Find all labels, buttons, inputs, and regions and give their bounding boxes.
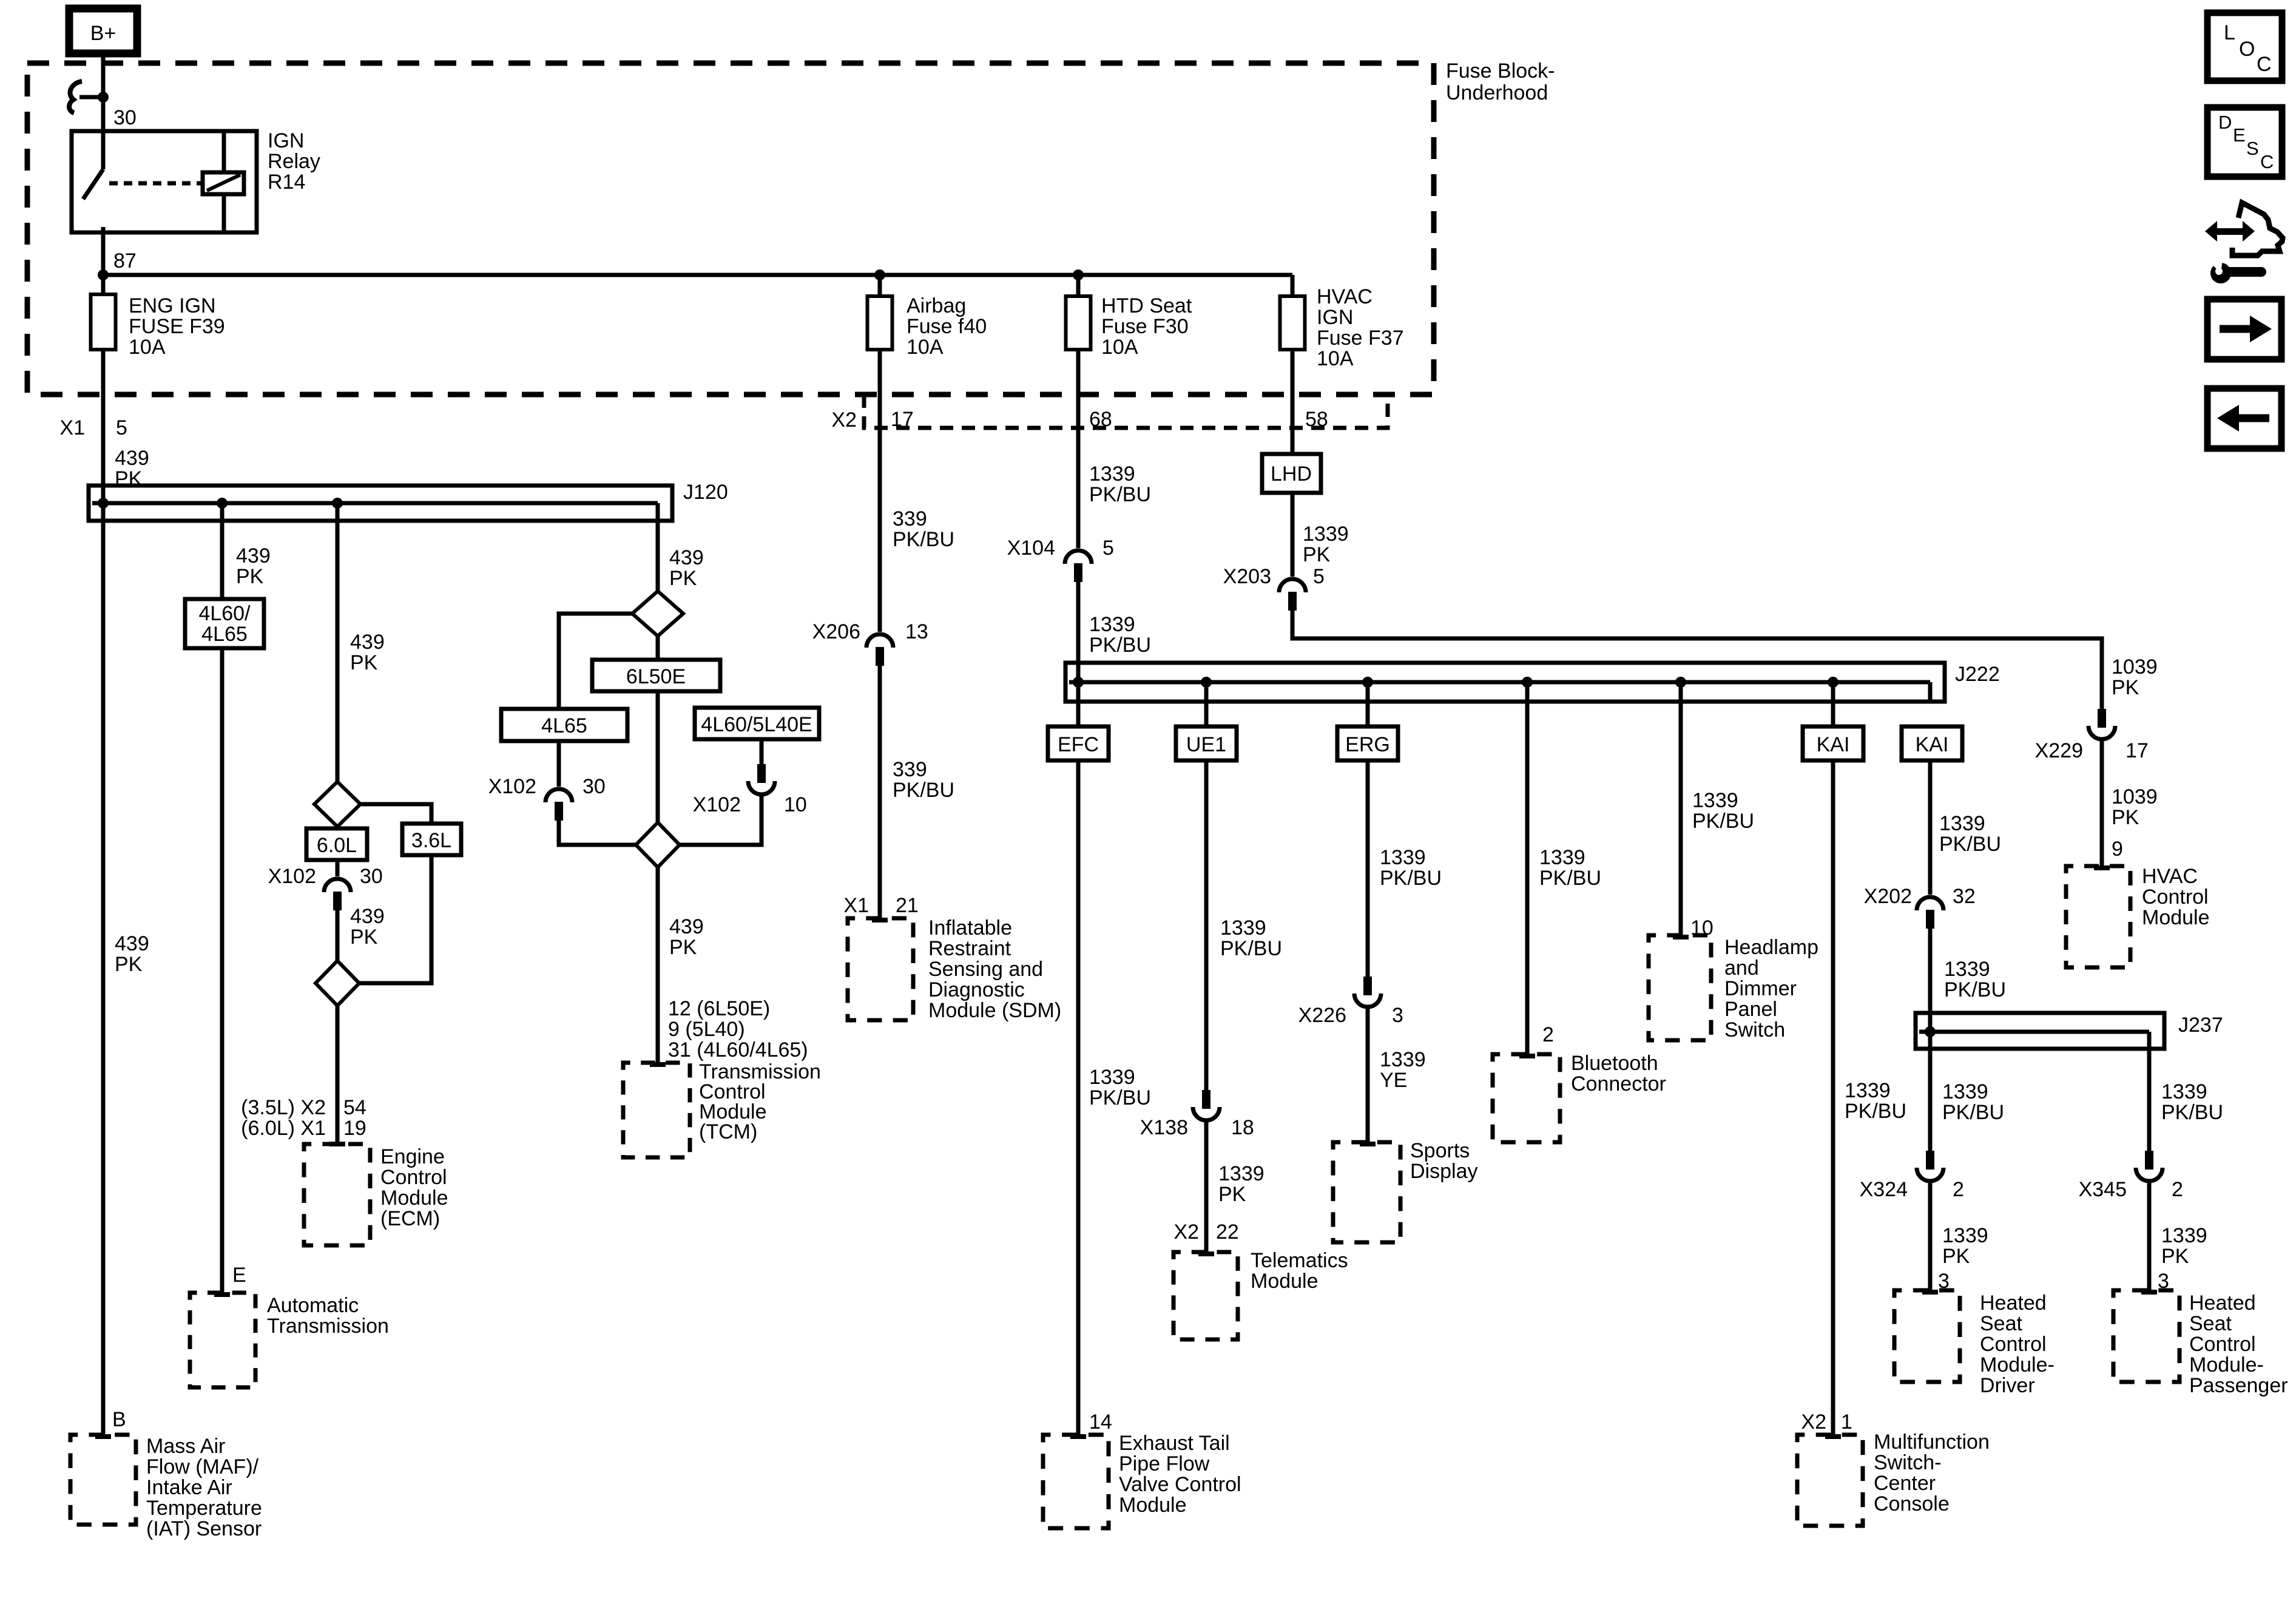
svg-text:439: 439 (669, 915, 704, 938)
wire X206 to SDM (878, 665, 882, 918)
svg-text:PK/BU: PK/BU (1380, 867, 1442, 890)
IGN relay R14 box (72, 131, 257, 232)
svg-text:4L65: 4L65 (201, 623, 248, 646)
junction dot at relay feed (98, 92, 109, 103)
svg-text:PK/BU: PK/BU (1939, 833, 2001, 856)
svg-text:1339: 1339 (1303, 523, 1349, 546)
svg-text:30: 30 (360, 865, 383, 888)
svg-text:LHD: LHD (1271, 462, 1312, 486)
KAI fuse tap box (center console) (1831, 682, 1835, 1435)
svg-text:PK: PK (669, 936, 697, 959)
svg-text:2: 2 (1542, 1023, 1554, 1046)
svg-text:Module: Module (380, 1187, 448, 1210)
svg-text:Heated: Heated (2189, 1292, 2256, 1315)
fuse F30 HTD Seat 10A (1076, 275, 1081, 296)
svg-text:X2: X2 (831, 408, 857, 432)
svg-text:Control: Control (380, 1166, 447, 1189)
wire fuse F39 to J120 (101, 350, 106, 486)
feed wire to airbag / htd seat / hvac fuses (103, 273, 1292, 277)
svg-text:C: C (2260, 151, 2274, 172)
wire 3.6L branch to merge diamond (359, 855, 431, 983)
connector X2 dashed outline (864, 394, 1388, 428)
splice pack J237 (1916, 1013, 2164, 1049)
svg-text:439: 439 (350, 905, 385, 928)
svg-text:X345: X345 (2079, 1178, 2127, 1201)
svg-text:Display: Display (1410, 1160, 1477, 1183)
svg-text:Relay: Relay (268, 150, 320, 173)
svg-text:B: B (112, 1408, 126, 1431)
svg-text:Seat: Seat (1980, 1312, 2022, 1335)
connector X226 pin 3 (1363, 977, 1372, 995)
svg-text:Diagnostic: Diagnostic (928, 978, 1025, 1001)
connector X104 pin 5 (1065, 550, 1092, 564)
svg-text:C: C (2257, 53, 2272, 76)
svg-text:31 (4L60/4L65): 31 (4L60/4L65) (668, 1038, 808, 1061)
LHD option box (1262, 454, 1321, 493)
svg-text:YE: YE (1380, 1069, 1407, 1092)
svg-text:PK: PK (2161, 1245, 2189, 1268)
svg-text:J222: J222 (1955, 663, 2000, 686)
svg-text:10A: 10A (907, 336, 944, 359)
svg-text:Engine: Engine (380, 1145, 445, 1168)
UE1 fuse tap box (1204, 682, 1209, 1090)
svg-text:PK/BU: PK/BU (1089, 1086, 1151, 1109)
splice pack J222 (1065, 663, 1945, 702)
wire merge diamond to TCM (656, 867, 660, 1063)
svg-text:IGN: IGN (268, 129, 304, 152)
battery feed B+ terminal (69, 8, 137, 53)
svg-text:X102: X102 (488, 775, 536, 798)
Engine Control Module (ECM) box (304, 1144, 370, 1245)
svg-text:IGN: IGN (1317, 306, 1353, 329)
connector X229 pin 17 (2098, 709, 2106, 728)
svg-text:Multifunction: Multifunction (1874, 1430, 1990, 1454)
svg-text:Switch-: Switch- (1874, 1451, 1941, 1474)
svg-text:X104: X104 (1007, 537, 1055, 560)
svg-text:Heated: Heated (1980, 1292, 2047, 1315)
svg-text:HTD Seat: HTD Seat (1101, 294, 1192, 317)
fuse block feed hook symbol (69, 81, 82, 113)
wire to 4L65 branch (559, 614, 632, 709)
relay coil branch (222, 131, 226, 173)
svg-text:87: 87 (113, 249, 137, 273)
connector X324 pin 2 (1926, 1151, 1934, 1170)
svg-text:X138: X138 (1140, 1116, 1188, 1139)
svg-text:Headlamp: Headlamp (1724, 936, 1818, 959)
svg-text:PK: PK (2112, 806, 2139, 829)
svg-text:Intake Air: Intake Air (146, 1476, 232, 1499)
svg-text:PK/BU: PK/BU (1942, 1101, 2004, 1124)
KAI fuse tap box (heated seats) (1902, 726, 1962, 760)
Mass Air Flow (MAF)/IAT sensor box (70, 1435, 136, 1525)
svg-text:Inflatable: Inflatable (928, 916, 1012, 940)
svg-text:30: 30 (582, 775, 606, 798)
svg-text:3: 3 (1392, 1004, 1403, 1027)
fuse f40 Airbag 10A (878, 275, 882, 296)
svg-text:X102: X102 (268, 865, 316, 888)
svg-text:R14: R14 (268, 171, 305, 194)
svg-text:4L60/5L40E: 4L60/5L40E (701, 713, 812, 736)
svg-text:Control: Control (2189, 1333, 2256, 1356)
svg-text:13: 13 (905, 620, 928, 643)
svg-text:Transmission: Transmission (267, 1315, 389, 1338)
wire X138 to telematics module (1204, 1122, 1209, 1252)
svg-text:Telematics: Telematics (1251, 1249, 1348, 1272)
svg-text:(3.5L) X2: (3.5L) X2 (241, 1096, 326, 1119)
svg-text:19: 19 (343, 1117, 366, 1140)
svg-text:1339: 1339 (1942, 1224, 1988, 1247)
svg-text:Dimmer: Dimmer (1724, 977, 1797, 1000)
svg-text:X2: X2 (1173, 1221, 1199, 1244)
svg-text:Console: Console (1874, 1492, 1950, 1515)
svg-text:PK/BU: PK/BU (1845, 1100, 1906, 1123)
svg-text:O: O (2239, 38, 2255, 61)
svg-text:Center: Center (1874, 1472, 1936, 1495)
svg-text:PK/BU: PK/BU (893, 779, 954, 802)
svg-text:1339: 1339 (1539, 846, 1585, 869)
svg-text:X1: X1 (843, 894, 869, 917)
svg-text:Seat: Seat (2189, 1312, 2232, 1335)
EFC fuse tap box (1048, 726, 1109, 760)
svg-text:PK: PK (1303, 543, 1331, 566)
svg-text:X1: X1 (59, 416, 85, 439)
next page arrow icon (2207, 299, 2281, 359)
wire J120 to MAF/IAT sensor (101, 486, 106, 1435)
svg-text:Control: Control (1980, 1333, 2047, 1356)
svg-text:X206: X206 (812, 620, 860, 643)
svg-text:UE1: UE1 (1186, 733, 1226, 756)
engine branch merge diamond (336, 910, 340, 961)
svg-text:Fuse F30: Fuse F30 (1101, 315, 1189, 338)
Sports Display box (1333, 1142, 1400, 1242)
transmission application split diamond (632, 591, 683, 636)
wire J120 to TCM (656, 521, 660, 591)
svg-text:439: 439 (115, 447, 149, 470)
svg-text:PK: PK (115, 953, 143, 976)
svg-text:Module: Module (2142, 906, 2210, 929)
svg-text:Bluetooth: Bluetooth (1571, 1052, 1658, 1075)
Headlamp and Dimmer Panel Switch box (1649, 935, 1711, 1040)
svg-text:Temperature: Temperature (146, 1497, 262, 1520)
wire X102 pin 10 to merge diamond (680, 796, 761, 845)
svg-text:4L60/: 4L60/ (198, 602, 251, 625)
svg-text:KAI: KAI (1916, 733, 1949, 756)
Transmission Control Module (TCM) box (623, 1063, 690, 1157)
Heated Seat Control Module - Passenger box (2113, 1290, 2180, 1382)
svg-text:PK: PK (350, 926, 378, 949)
svg-text:1: 1 (1841, 1410, 1852, 1434)
svg-text:5: 5 (1313, 565, 1325, 588)
svg-text:1339: 1339 (1380, 1048, 1426, 1071)
svg-text:2: 2 (2172, 1178, 2183, 1201)
svg-text:Connector: Connector (1571, 1072, 1666, 1095)
svg-text:58: 58 (1305, 408, 1328, 431)
svg-text:1339: 1339 (2161, 1224, 2207, 1247)
svg-text:1039: 1039 (2112, 785, 2158, 808)
svg-text:Fuse F37: Fuse F37 (1317, 327, 1404, 350)
svg-text:X229: X229 (2035, 739, 2083, 762)
svg-text:4L65: 4L65 (541, 714, 587, 737)
wire J120 to ECM (336, 503, 340, 782)
svg-text:Flow (MAF)/: Flow (MAF)/ (146, 1455, 259, 1478)
svg-text:Sensing and: Sensing and (928, 958, 1043, 981)
wire 4L65 to connector X102 (557, 741, 561, 787)
svg-text:1339: 1339 (1692, 789, 1738, 812)
svg-text:10A: 10A (1317, 347, 1354, 370)
connector X102 pin 30 (6.0L) (324, 879, 351, 892)
svg-text:439: 439 (350, 631, 385, 654)
svg-text:J120: J120 (683, 481, 728, 504)
wire X104 to J222 and EFC (1076, 581, 1081, 1435)
svg-text:PK: PK (350, 651, 378, 674)
svg-text:1039: 1039 (2112, 655, 2158, 679)
svg-text:PK/BU: PK/BU (1692, 810, 1754, 833)
svg-text:17: 17 (2125, 739, 2149, 762)
svg-text:S: S (2246, 138, 2259, 159)
svg-text:and: and (1724, 956, 1759, 980)
svg-text:6.0L: 6.0L (317, 834, 357, 857)
svg-text:Module-: Module- (2189, 1353, 2264, 1376)
svg-text:J237: J237 (2178, 1014, 2223, 1037)
wire 6.0L box to connector X102 (336, 860, 340, 876)
wire to 3.6L branch (360, 804, 431, 824)
svg-text:Exhaust Tail: Exhaust Tail (1119, 1432, 1230, 1455)
svg-text:1339: 1339 (1218, 1162, 1264, 1185)
svg-text:2: 2 (1953, 1178, 1964, 1201)
connector X203 pin 5 (1279, 579, 1306, 592)
svg-text:339: 339 (893, 758, 927, 781)
svg-text:1339: 1339 (2161, 1080, 2207, 1103)
wire X102 to merge diamond (559, 820, 636, 845)
svg-text:(IAT) Sensor: (IAT) Sensor (146, 1517, 262, 1540)
wire X345 to heated seat module passenger (2147, 1183, 2152, 1290)
svg-text:Pipe Flow: Pipe Flow (1119, 1452, 1210, 1475)
svg-text:Valve Control: Valve Control (1119, 1473, 1241, 1496)
svg-text:ENG IGN: ENG IGN (129, 294, 216, 317)
svg-text:L: L (2224, 21, 2235, 44)
svg-text:X202: X202 (1864, 885, 1912, 908)
wire from B+ into fuse block (101, 53, 106, 132)
svg-text:PK/BU: PK/BU (2161, 1101, 2223, 1124)
wire fuse f40 to SDM (878, 350, 882, 632)
svg-text:B+: B+ (90, 22, 116, 45)
svg-text:FUSE F39: FUSE F39 (129, 315, 225, 338)
svg-text:1339: 1339 (1380, 846, 1426, 869)
svg-text:KAI: KAI (1817, 733, 1850, 756)
relay coil box (203, 172, 244, 194)
svg-text:Module: Module (1251, 1270, 1319, 1293)
svg-text:1339: 1339 (1220, 916, 1266, 940)
wire fuse F37 to LHD option box (1291, 350, 1295, 454)
svg-text:Underhood: Underhood (1446, 81, 1548, 104)
svg-text:22: 22 (1216, 1221, 1239, 1244)
svg-text:1339: 1339 (1845, 1079, 1891, 1102)
wire merge diamond to ECM (336, 1006, 340, 1144)
svg-text:PK: PK (1942, 1245, 1970, 1268)
4L60/4L65 application box (185, 599, 264, 648)
svg-text:1339: 1339 (1942, 1080, 1988, 1103)
wire X229 to HVAC control module (2100, 741, 2104, 866)
svg-text:54: 54 (343, 1096, 366, 1119)
connector X345 pin 2 (2145, 1151, 2153, 1170)
shop/diagnostic icon (arrows, engine outline, wrench) (2205, 203, 2283, 283)
fuse F39 ENG IGN 10A (91, 294, 116, 350)
connector X102 pin 30 (4L65) (545, 789, 572, 802)
svg-text:Control: Control (2142, 885, 2209, 909)
engine application split diamond (314, 782, 360, 827)
HVAC Control Module box (2066, 866, 2130, 967)
svg-text:Fuse Block-: Fuse Block- (1446, 59, 1555, 83)
svg-text:1339: 1339 (1939, 812, 1985, 835)
3.6L application box (402, 824, 461, 855)
svg-text:10: 10 (784, 793, 807, 816)
wire J222 to headlamp dimmer switch (1679, 682, 1683, 935)
svg-text:PK/BU: PK/BU (1089, 483, 1151, 506)
svg-text:X2: X2 (1801, 1410, 1826, 1434)
wire X203 to HVAC control module branch (1292, 610, 2102, 709)
connector X138 pin 18 (1202, 1090, 1210, 1109)
Telematics Module box (1173, 1252, 1238, 1339)
svg-text:PK/BU: PK/BU (893, 528, 954, 551)
Heated Seat Control Module - Driver box (1894, 1290, 1960, 1382)
wire X226 to sports display (1366, 1009, 1370, 1142)
LOC navigation icon (2207, 13, 2282, 81)
Exhaust Tail Pipe Flow Valve Control Module box (1043, 1435, 1109, 1528)
svg-text:PK: PK (669, 567, 697, 590)
svg-text:1339: 1339 (1089, 462, 1135, 486)
svg-text:X102: X102 (693, 793, 741, 816)
transmission branch merge diamond (636, 822, 680, 867)
wire 4L60/5L40E to connector X102 pin 10 (760, 739, 764, 764)
wire KAI to X202 (1928, 760, 1933, 895)
svg-text:Passenger: Passenger (2189, 1374, 2288, 1397)
svg-text:X324: X324 (1860, 1178, 1908, 1201)
svg-text:PK/BU: PK/BU (1944, 978, 2006, 1001)
svg-text:PK/BU: PK/BU (1089, 634, 1151, 657)
connector X206 pin 13 (866, 634, 893, 648)
svg-text:(ECM): (ECM) (380, 1207, 440, 1230)
wire J222 to bluetooth connector (1525, 682, 1530, 1054)
svg-text:Sports: Sports (1410, 1139, 1470, 1162)
svg-text:14: 14 (1089, 1410, 1112, 1434)
4L65 application box (501, 709, 627, 741)
svg-text:HVAC: HVAC (1317, 285, 1373, 308)
svg-text:Automatic: Automatic (267, 1294, 359, 1317)
svg-text:ERG: ERG (1345, 733, 1390, 756)
svg-text:Mass Air: Mass Air (146, 1435, 225, 1458)
svg-text:PK: PK (2112, 676, 2139, 699)
svg-text:5: 5 (116, 416, 127, 439)
svg-text:1339: 1339 (1944, 958, 1990, 981)
ERG fuse tap box (1366, 682, 1370, 977)
svg-text:Module (SDM): Module (SDM) (928, 999, 1061, 1022)
svg-text:PK: PK (236, 565, 264, 588)
svg-text:EFC: EFC (1058, 733, 1099, 756)
Inflatable Restraint Sensing and Diagnostic Module (SDM) box (848, 918, 913, 1020)
svg-text:E: E (2233, 124, 2246, 146)
relay actuation dashed link (109, 181, 203, 186)
svg-text:Module-: Module- (1980, 1353, 2055, 1376)
wire J120 to automatic transmission (220, 503, 225, 599)
svg-text:HVAC: HVAC (2142, 865, 2198, 888)
svg-text:32: 32 (1953, 885, 1976, 908)
6.0L application box (336, 827, 340, 830)
svg-text:439: 439 (236, 544, 271, 567)
svg-text:Switch: Switch (1724, 1018, 1785, 1041)
svg-text:10A: 10A (129, 336, 166, 359)
svg-text:Panel: Panel (1724, 998, 1777, 1021)
relay switch contact pin 30 to 87 (101, 131, 106, 169)
wire J237 to X345 (2147, 1049, 2152, 1151)
svg-text:X203: X203 (1223, 565, 1271, 588)
4L60/5L40E application box (695, 708, 819, 739)
Fuse Block - Underhood dashed enclosure (27, 63, 1434, 394)
Automatic Transmission box (190, 1293, 255, 1387)
svg-text:Airbag: Airbag (907, 294, 966, 317)
svg-text:Fuse f40: Fuse f40 (907, 315, 987, 338)
junction dot pin 87 feed (98, 269, 109, 280)
previous page arrow icon (2207, 388, 2281, 449)
svg-text:10A: 10A (1101, 336, 1138, 359)
svg-text:6L50E: 6L50E (626, 665, 686, 688)
svg-text:12 (6L50E): 12 (6L50E) (668, 997, 770, 1020)
svg-text:68: 68 (1089, 408, 1112, 431)
connector X102 pin 10 (757, 764, 766, 783)
svg-text:D: D (2218, 112, 2232, 133)
wire fuse F30 to J222 (1076, 350, 1081, 548)
svg-text:9 (5L40): 9 (5L40) (668, 1018, 745, 1041)
svg-text:E: E (232, 1264, 246, 1287)
Multifunction Switch - Center Console box (1797, 1435, 1863, 1526)
svg-text:(TCM): (TCM) (699, 1120, 757, 1143)
DESC navigation icon (2207, 107, 2282, 177)
connector X202 pin 32 (1917, 897, 1943, 910)
splice pack J120 (89, 486, 672, 521)
svg-text:Driver: Driver (1980, 1374, 2035, 1397)
fuse F37 HVAC IGN 10A (1291, 275, 1295, 296)
svg-text:1339: 1339 (1089, 613, 1135, 636)
svg-text:3.6L: 3.6L (411, 829, 451, 852)
svg-text:X226: X226 (1298, 1004, 1346, 1027)
svg-text:(6.0L) X1: (6.0L) X1 (241, 1117, 326, 1140)
svg-text:21: 21 (896, 894, 919, 917)
svg-text:30: 30 (113, 106, 137, 129)
svg-text:PK/BU: PK/BU (1220, 937, 1282, 960)
wire X324 to heated seat module driver (1928, 1183, 1933, 1290)
Bluetooth Connector box (1493, 1054, 1560, 1142)
svg-text:1339: 1339 (1089, 1066, 1135, 1089)
svg-text:9: 9 (2112, 838, 2123, 861)
6L50E application box (656, 636, 660, 660)
svg-text:439: 439 (115, 932, 149, 955)
svg-text:339: 339 (893, 507, 927, 530)
svg-text:Module: Module (1119, 1494, 1187, 1517)
svg-text:5: 5 (1102, 537, 1114, 560)
svg-text:439: 439 (669, 546, 704, 569)
wire LHD to X203 (1291, 493, 1295, 577)
svg-text:PK: PK (1218, 1183, 1246, 1206)
wire X202 to J237 (1928, 928, 1933, 1151)
svg-text:PK/BU: PK/BU (1539, 867, 1601, 890)
svg-text:Restraint: Restraint (928, 937, 1011, 960)
svg-text:18: 18 (1231, 1116, 1254, 1139)
